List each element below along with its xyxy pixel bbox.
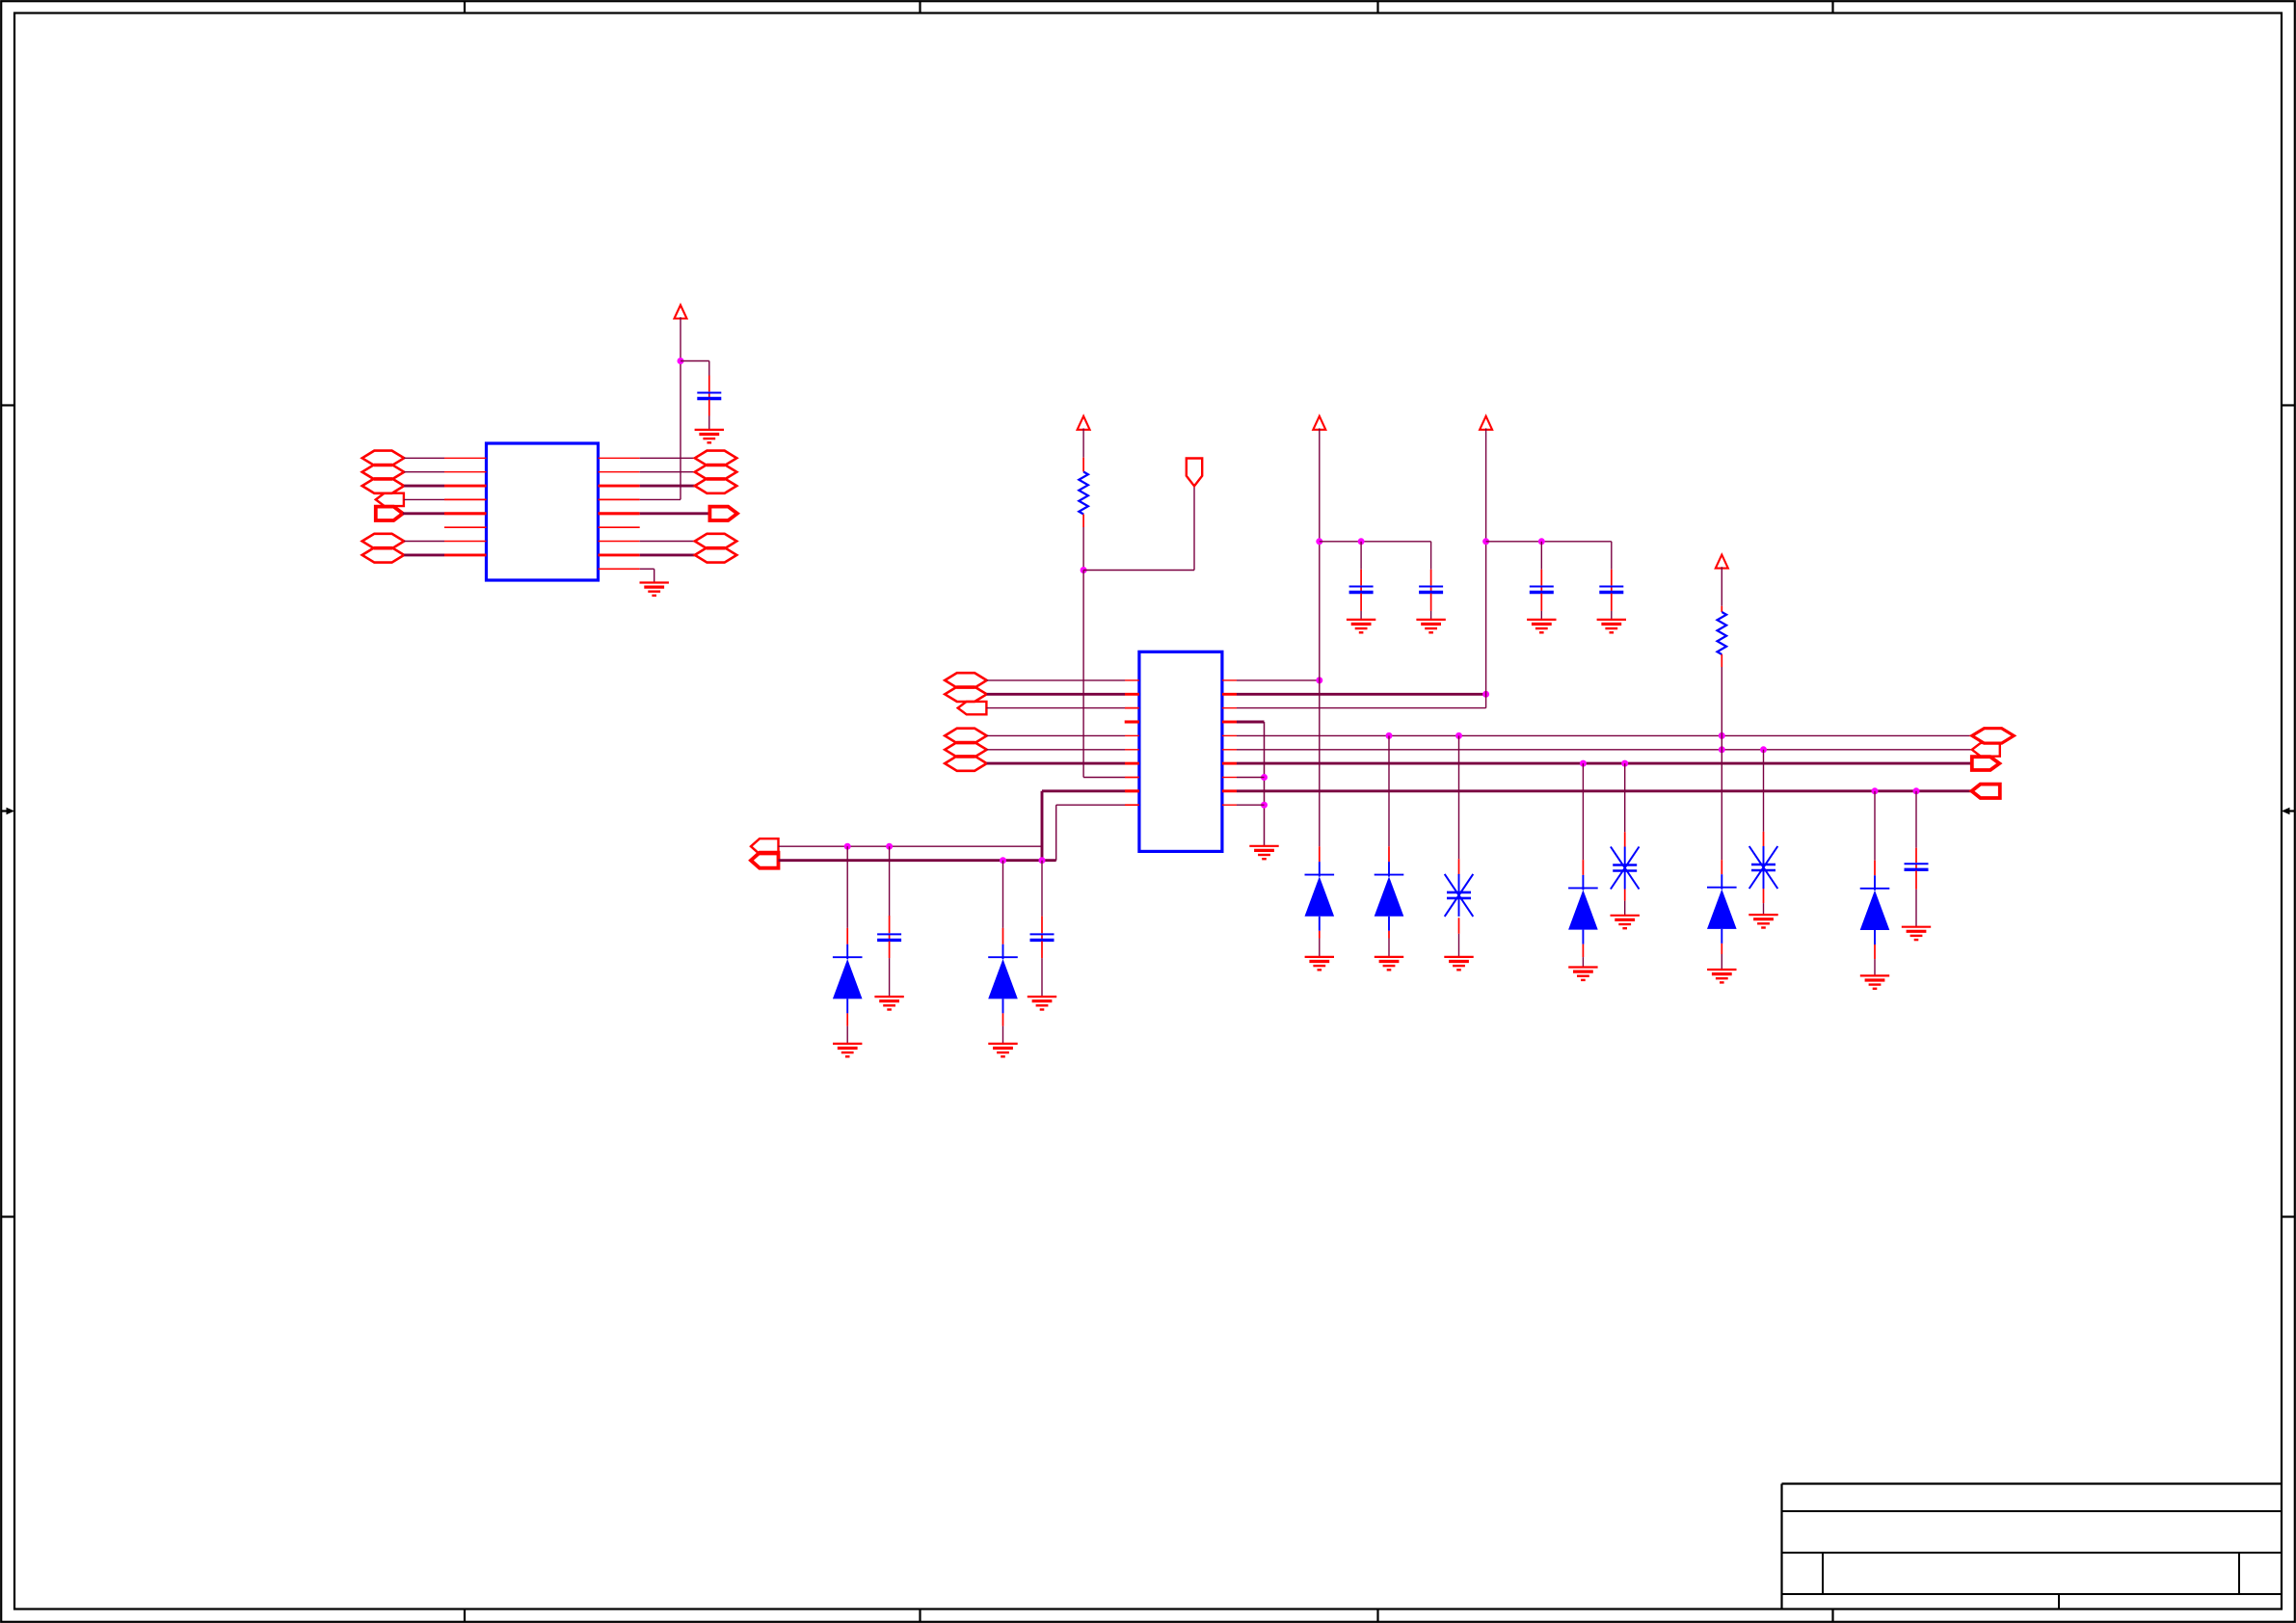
node row5-D4 junction [1386,732,1393,739]
wire net A horizontal [779,845,1043,847]
wire U1 left pin5 [403,512,444,515]
wire C3 stem [1360,542,1362,570]
wire U2 left pin9 elbow [1042,791,1125,861]
wire RV3 to ground [1763,903,1765,915]
wire U1 right pin16 [640,541,695,543]
node row5-RV1 junction [1455,732,1462,739]
pin U2.11 right [1222,679,1237,681]
ground GND1 (U1) [640,583,669,596]
wire U2 right pin16 (row6 net) [1237,749,1972,751]
node row7-RV2 junction [1621,760,1628,767]
power symbol VCC1 [675,306,687,319]
pin U1.17 right [599,553,640,556]
wire C2 to ground [889,958,891,997]
pin U1.3 left [444,485,487,488]
lead C8 bottom [1041,942,1043,959]
lead D5 bottom [1582,945,1584,958]
port P18 U2-left pin7 hexagon [945,756,987,770]
node row9-D7 junction [1872,787,1879,794]
pin U2.18 right [1222,777,1237,779]
ground GND18 (RV3) [1749,915,1777,927]
pin U2.17 right [1222,762,1237,765]
lead D7 top [1874,861,1876,876]
capacitor C6 [1599,587,1623,593]
wire U1 right pin13 to VCC stem [640,498,681,500]
wire U1 left pin2 [404,471,444,473]
lead D6 top [1721,860,1722,874]
title block row line 2 [1782,1552,2283,1554]
resistor R2 [1718,612,1727,654]
wire row6 to RV3 [1763,750,1765,832]
wire C7 to ground [1915,890,1917,927]
lead D4 top [1388,846,1390,862]
diode D6 [1707,874,1737,944]
ground GND14 (D4) [1375,957,1403,970]
port P22 row7 flag [1972,757,2000,770]
wire D6 to ground [1721,954,1722,970]
ground GND4 (C3) [1347,620,1375,632]
title block outline [1782,1484,2283,1610]
node VCC3 caps junction [1316,538,1322,545]
wire C6 stem [1611,542,1613,570]
capacitor C2 [877,934,901,940]
pin U2.13 right [1222,707,1237,709]
pin U2.2 left [1125,693,1139,696]
wire VCC1 vertical [680,317,681,499]
pin U1.18 right [599,568,640,570]
ground GND7 (C6) [1597,620,1626,632]
wire U1 left pin8 [404,553,444,556]
capacitor C1 [697,393,721,399]
lead D1 bottom [846,1013,848,1025]
wire U1 right pin17 [640,553,695,556]
wire D3 to ground [1319,939,1321,957]
pin U2.16 right [1222,749,1237,751]
wire U2 left pin3 [986,707,1125,709]
port P17 U2-left pin6 hexagon [945,742,987,757]
wire U2 right pin20 [1237,804,1265,806]
wire VCC1 to C1 [681,361,709,376]
wire U1 left pin3 [404,485,444,488]
port P25 flag B [751,853,779,868]
port P9 right pin2 hexagon [695,465,737,479]
wire row7 to RV2 [1624,763,1626,832]
diode D5 [1568,875,1598,945]
wire U2 right pin19 (row9 net) [1237,789,1972,792]
suppressor RV3 [1749,846,1778,889]
lead R2 bottom [1721,654,1722,667]
lead D3 bottom [1319,931,1321,939]
node netB-row9 junction [1039,857,1046,864]
node netB-D2 junction [1000,857,1006,864]
port P19 U2-left pin3 flag [958,702,987,714]
resistor R1 [1079,472,1088,515]
net label flag N1 [1187,459,1202,487]
lead RV2 top [1624,832,1626,846]
node row6-D6 junction [1719,746,1725,753]
wire U2 right pin15 (row5 net) [1237,734,1972,736]
pin U2.20 right [1222,804,1237,806]
pin U1.16 right [599,541,640,543]
wire U2 right pin17 (row7 net) [1237,762,1972,765]
wire U1 left pin4 [404,498,444,500]
node VCC4 caps junction [1482,538,1489,545]
border zone ticks right edge [2282,406,2295,1217]
pin U2.12 right [1222,693,1237,696]
node netA-C2 junction [886,843,893,850]
border centre arrow right edge [2282,808,2295,815]
diode D1 [833,945,863,1014]
wire C5 stem [1540,542,1542,570]
wire C5 to ground [1540,611,1542,620]
pin U2.14 right [1222,721,1237,724]
lead C3 bottom [1360,594,1362,611]
wire netB to D2 [1002,861,1004,928]
ground GND13 (D3) [1305,957,1334,970]
ground GND11 (D2) [988,1044,1017,1056]
wire row5 to RV1 [1458,735,1460,859]
lead C5 top [1540,570,1542,586]
lead C2 top [889,916,891,933]
diode D2 [988,945,1018,1014]
pin U1.13 right [599,498,640,500]
node row10-gnd junction [1261,802,1268,809]
lead RV1 bottom [1458,918,1460,934]
power symbol VCC2 (R1) [1078,416,1090,430]
port P14 U2-left pin1 hexagon [945,673,987,687]
wire netB to C8 [1041,861,1043,917]
pin U1.15 right unconnected stub [599,526,640,528]
node row2-P3 junction [1482,691,1489,698]
lead D1 top [846,928,848,945]
pin U1.14 right [599,512,640,515]
ground GND2 (C1) [695,430,724,442]
wire D4 to ground [1388,939,1390,957]
title block cell divider row3 left [1822,1553,1824,1594]
node row8-gnd junction [1261,774,1268,781]
ground GND6 (C5) [1527,620,1556,632]
lead C1 bottom [708,400,710,416]
wire U1 left pin1 [404,457,444,459]
pin U2.7 left [1125,762,1139,765]
power symbol VCC4 (P3) [1480,416,1492,430]
wire D1 to ground [846,1026,848,1044]
wire row9 to D7 [1874,791,1876,861]
wire C8 to ground [1041,958,1043,997]
wire U2 left pin2 [987,693,1125,696]
port P3 left pin3 hexagon [362,478,405,492]
lead R1 bottom [1082,515,1084,528]
wire U2 right pin12 [1237,693,1486,696]
wire netA to D1 [846,846,848,928]
lead C1 top [708,376,710,392]
lead C6 top [1611,570,1613,586]
port P7 left pin8 hexagon [362,547,405,562]
pin U1.8 left [444,553,487,556]
power symbol VCC5 (R2) [1716,555,1728,569]
pin U2.9 left [1125,789,1139,792]
IC U1 [487,443,599,580]
pin U2.15 right [1222,734,1237,736]
ground GND9 (D1) [833,1044,862,1056]
wire RV1 to ground [1458,934,1460,957]
port P2 left pin2 hexagon [362,465,405,479]
lead D5 top [1582,860,1584,875]
pin U1.12 right [599,485,640,488]
port P11 right pin14 flag [709,507,737,520]
capacitor C7 [1905,864,1929,869]
ground GND16 (D5) [1568,968,1597,980]
wire U2 right pin14 elbow to ground rail [1237,722,1265,846]
wire D7 to ground [1874,959,1876,975]
wire caps rail 2 [1486,541,1612,543]
title block row line 3 [1782,1593,2283,1595]
wire U2 left pin7 [987,762,1125,765]
wire VCC5 to R2 [1721,567,1722,606]
pin U1.6 left unconnected stub [444,526,487,528]
capacitor C8 [1030,934,1055,940]
lead C8 top [1041,917,1043,934]
pin U1.5 left [444,512,487,515]
node C5 junction [1538,538,1545,545]
wire junction to net flag [1083,486,1194,570]
wire U1 right pin14 [640,512,710,515]
pin U1.11 right [599,471,640,473]
wire U2 right pin13 [1237,707,1486,709]
border zone ticks bottom edge [465,1610,1833,1622]
pin U1.7 left [444,541,487,543]
wire C3 to ground [1360,611,1362,620]
pin U2.6 left [1125,749,1139,751]
wire VCC2 to R1 [1082,428,1084,457]
wire netA to C2 [889,846,891,916]
pin U1.4 left [444,498,487,500]
wire R2 down to D6 [1721,667,1722,860]
wire U2 right pin11 [1237,679,1320,681]
ground GND3 (U2) [1249,846,1278,859]
lead C6 bottom [1611,594,1613,611]
wire RV2 to ground [1624,901,1626,916]
node row1-P2 junction [1316,677,1322,683]
lead C4 bottom [1430,594,1432,611]
port P4 left pin4 flag [376,493,404,506]
title block cell divider row3 right [2238,1553,2240,1594]
port P20 row5 hexagon [1972,729,2015,743]
wire C1 to ground [708,416,710,430]
wire VCC4 vertical [1485,428,1487,707]
wire D5 to ground [1582,957,1584,967]
lead C7 bottom [1915,870,1917,889]
pin U2.4 left unconnected stub [1125,720,1139,723]
title block cell divider row4 [2058,1594,2060,1610]
wire U1 right pin12 [640,485,695,488]
port P24 flag A [751,838,779,854]
wire row5 to D4 [1388,735,1390,846]
border zone ticks left edge [1,406,14,1217]
lead D6 bottom [1721,944,1722,954]
wire R1 to junction [1082,527,1084,571]
lead R2 top [1721,606,1722,612]
lead D7 bottom [1874,945,1876,959]
wire U1 left pin7 [404,541,444,543]
wire U2 left pin6 [987,749,1125,751]
pin U2.5 left [1125,734,1139,736]
lead D3 top [1319,846,1321,862]
lead C5 bottom [1540,594,1542,611]
ground GND19 (D7) [1860,975,1889,988]
lead C2 bottom [889,942,891,959]
diode D4 [1375,862,1404,931]
ground GND12 (C8) [1028,997,1056,1009]
power symbol VCC3 (P2) [1313,416,1325,430]
lead D4 bottom [1388,931,1390,939]
port P16 U2-left pin5 hexagon [945,729,987,743]
ground GND10 (C2) [874,997,903,1009]
port P15 U2-left pin2 hexagon [945,687,987,702]
wire U2 left pin1 [987,679,1125,681]
lead C7 top [1915,848,1917,864]
capacitor C5 [1530,587,1554,593]
port P5 left pin5 flag [376,507,403,520]
node row9-C7 junction [1913,787,1920,794]
ground GND15 (RV1) [1444,957,1473,970]
pin U2.8 left [1125,777,1139,779]
lead R1 top [1082,458,1084,472]
node R1 junction [1081,567,1087,573]
pin U2.19 right [1222,789,1237,792]
port P12 right pin16 hexagon [695,534,737,548]
wire U1 right pin18 to ground [640,569,654,582]
IC U2 [1139,652,1222,851]
pin U2.10 left [1125,804,1139,806]
wire U1 right pin11 [640,471,695,473]
suppressor RV1 [1445,874,1474,917]
lead RV3 top [1763,832,1765,846]
wire caps rail 1 [1320,541,1431,543]
ground GND20 (C7) [1902,927,1931,940]
pin U1.10 right [599,457,640,459]
border centre arrow left edge [1,808,14,815]
pin U2.1 left [1125,679,1139,681]
capacitor C4 [1419,587,1443,593]
diode D7 [1860,875,1890,945]
ground GND8 (D6) [1707,970,1736,982]
title block row line 1 [1782,1510,2283,1512]
port P8 right pin1 hexagon [695,451,737,466]
node row5-R2 junction [1719,732,1725,739]
pin U1.1 left [444,457,487,459]
port P13 right pin17 hexagon [695,547,737,562]
ground GND17 (RV2) [1611,916,1640,928]
node netA-D1 junction [844,843,851,850]
ground GND5 (C4) [1416,620,1445,632]
pin U1.2 left [444,471,487,473]
lead RV2 bottom [1624,890,1626,901]
pin U2.3 left [1125,707,1139,709]
border zone ticks top edge [465,1,1833,13]
lead D2 bottom [1002,1013,1004,1025]
wire net B horizontal [779,859,1056,862]
wire row9 to C7 [1915,791,1917,848]
wire U2 left pin5 [987,734,1125,736]
wire U2 left pin10 elbow [1056,805,1125,861]
lead D2 top [1002,928,1004,945]
node row6-RV3 junction [1760,746,1767,753]
node VCC1 junction [678,358,684,364]
port P10 right pin3 hexagon [695,478,737,492]
node row7-D5 junction [1580,760,1587,767]
wire VCC3 vertical to D3 [1319,428,1321,846]
capacitor C3 [1349,587,1374,593]
wire R1 junction down to U2 pin8 [1082,571,1084,778]
port P1 left pin1 hexagon [362,451,405,466]
lead RV1 top [1458,859,1460,875]
wire U2 left pin8 [1083,777,1125,779]
wire C4 stem [1430,542,1432,570]
wire U2 right pin18 [1237,777,1265,779]
wire C6 to ground [1611,611,1613,620]
node C3 junction [1358,538,1365,545]
wire D2 to ground [1002,1026,1004,1044]
diode D3 [1305,862,1335,931]
wire row7 to D5 [1582,763,1584,860]
lead C3 top [1360,570,1362,586]
suppressor RV2 [1611,847,1640,890]
port P6 left pin7 hexagon [362,534,405,548]
lead RV3 bottom [1763,889,1765,903]
port P21 row6 flag [1972,743,2000,757]
wire C4 to ground [1430,611,1432,620]
wire U1 right pin10 [640,457,695,459]
port P23 row9 flag [1972,785,2000,798]
lead C4 top [1430,570,1432,586]
